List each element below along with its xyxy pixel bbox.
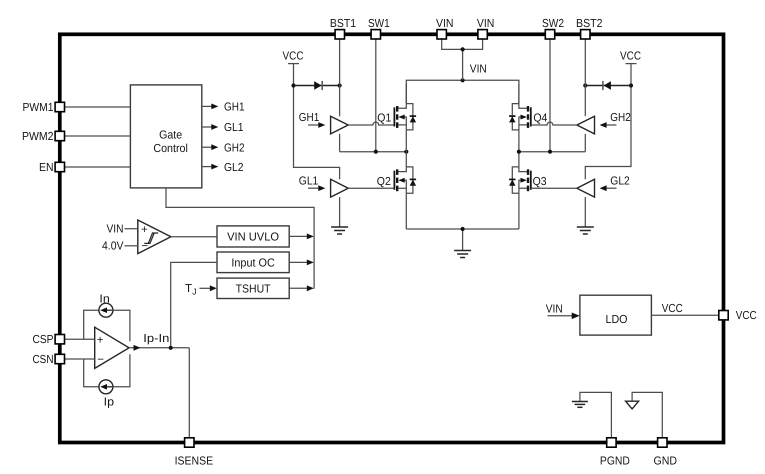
ground earth PGND — [572, 402, 588, 408]
node bridge ground center — [461, 227, 465, 231]
IC boundary box — [60, 34, 724, 442]
current sense amplifier U3 — [95, 327, 129, 368]
wire VCC down and over to GL2 driver supply — [585, 86, 631, 180]
svg-text:VIN: VIN — [436, 17, 454, 30]
label VIN into LDO with arrow — [546, 303, 580, 320]
node Q4 source rail — [517, 150, 521, 154]
wire Input OC to ISENSE node — [171, 262, 217, 347]
block Input OC — [217, 252, 289, 273]
wire GH2 driver lower rail — [584, 134, 586, 152]
svg-text:Q3: Q3 — [533, 175, 547, 188]
node VCC-diode junction right — [629, 83, 633, 87]
wire VCC down and over to GL1 driver supply — [294, 86, 340, 180]
svg-text:In: In — [99, 292, 109, 305]
current source In — [99, 303, 113, 317]
pin PWM1 — [23, 101, 65, 114]
wire Ip-In node down to ISENSE pin — [188, 348, 190, 438]
VIN top rail — [406, 80, 519, 103]
current source Ip loop (bottom) — [84, 354, 130, 387]
node VIN rail center — [461, 78, 465, 82]
pin PGND — [600, 438, 630, 468]
transistor Q4 — [509, 84, 531, 152]
wire EN to Gate Control — [65, 166, 131, 168]
svg-text:GH1: GH1 — [224, 101, 245, 114]
svg-text:VCC: VCC — [662, 302, 683, 315]
amp output arrow and Ip-In wire to ISENSE — [129, 347, 189, 349]
svg-text:LDO: LDO — [606, 313, 628, 326]
wire PWM1 to Gate Control — [65, 106, 131, 108]
svg-text:Input OC: Input OC — [231, 257, 275, 270]
svg-text:Q1: Q1 — [377, 112, 391, 125]
buffer GH2 driver — [577, 116, 595, 134]
current source In loop (top) — [84, 310, 130, 341]
arrow VIN UVLO to collector line — [289, 235, 307, 237]
svg-text:SW1: SW1 — [368, 17, 390, 30]
svg-text:GL1: GL1 — [299, 174, 319, 187]
svg-text:Q4: Q4 — [533, 112, 547, 125]
wire 4.0V to comparator - — [125, 245, 138, 247]
svg-text:GND: GND — [654, 454, 678, 467]
wire GL1 output to Q2 gate — [348, 187, 394, 189]
svg-text:PWM2: PWM2 — [22, 130, 54, 143]
wire BST1 pin to GH1 driver supply — [339, 39, 341, 116]
wire CSN to amp - — [65, 358, 95, 360]
svg-text:VIN: VIN — [470, 62, 487, 75]
svg-text:J: J — [192, 286, 196, 296]
wire GH1 output to Q1 gate with hop over SW1 — [348, 122, 394, 125]
svg-text:VIN: VIN — [107, 222, 124, 235]
pin VIN right — [477, 17, 495, 39]
block VIN UVLO — [217, 226, 289, 247]
wire PGND pin to earth ground — [580, 392, 612, 438]
diode D1 VCC to BST1 — [294, 81, 340, 90]
Gate Control output GL1 — [202, 121, 244, 134]
VCC T symbol right — [620, 50, 641, 86]
wire SW1 pin down to switch node rail — [375, 39, 377, 152]
buffer GL1 driver — [331, 179, 349, 197]
ground signal GND triangle — [626, 401, 639, 409]
svg-text:T: T — [185, 282, 192, 295]
svg-text:GL2: GL2 — [610, 174, 630, 187]
svg-text:Ip: Ip — [104, 395, 114, 408]
wire comparator output to VIN UVLO — [171, 236, 217, 238]
svg-text:EN: EN — [39, 161, 54, 174]
buffer GH1 driver — [331, 116, 349, 134]
wire GH2 output to Q4 gate with hop over SW2 — [531, 122, 577, 125]
svg-text:−: − — [141, 239, 148, 252]
svg-text:−: − — [97, 353, 104, 366]
pin SW1 — [368, 17, 390, 39]
pin ISENSE — [175, 438, 214, 468]
svg-text:+: + — [141, 223, 148, 236]
block LDO — [580, 295, 652, 335]
Gate Control output GL2 — [202, 161, 244, 174]
wire GL2 output to Q3 gate — [531, 187, 577, 189]
bottom bridge rail — [406, 229, 519, 250]
Gate Control output GH2 — [202, 141, 245, 154]
Gate Control block U1 — [130, 85, 201, 188]
node BST2-diode junction — [583, 83, 587, 87]
arrow TSHUT to collector line — [289, 287, 307, 289]
diode D2 VCC to BST2 — [585, 81, 631, 90]
pin VCC right — [719, 309, 757, 322]
svg-text:CSP: CSP — [33, 333, 54, 346]
pin PWM2 — [22, 130, 65, 143]
node SW1 on rail — [374, 150, 378, 154]
node Ip-In junction — [169, 346, 173, 350]
transistor Q3 — [509, 152, 531, 229]
comparator U2 VIN UVLO with hysteresis — [138, 220, 171, 254]
svg-text:VCC: VCC — [283, 50, 304, 63]
svg-text:GH2: GH2 — [224, 141, 245, 154]
wire VIN to comparator + — [125, 228, 138, 230]
svg-text:PGND: PGND — [600, 454, 630, 467]
node Q1 source rail — [404, 150, 408, 154]
svg-text:VCC: VCC — [736, 309, 757, 322]
node BST1-diode junction — [338, 83, 342, 87]
svg-text:Q2: Q2 — [377, 175, 391, 188]
arrow Input OC to collector line — [289, 261, 307, 263]
wire GL2 driver lower rail to ground — [584, 197, 586, 227]
node VIN pins join — [461, 47, 465, 51]
ground bridge center — [454, 251, 471, 258]
svg-text:VIN: VIN — [546, 303, 563, 316]
svg-text:+: + — [97, 333, 104, 346]
wire LDO output VCC to pin — [651, 314, 719, 316]
Gate Control output GH1 — [202, 101, 245, 114]
svg-text:Ip-In: Ip-In — [143, 332, 169, 345]
svg-text:GL2: GL2 — [224, 161, 244, 174]
wire VIN pins join — [442, 39, 483, 80]
label GH1 input arrow — [299, 111, 326, 128]
pin EN — [39, 161, 65, 174]
svg-text:BST2: BST2 — [576, 17, 603, 30]
svg-text:VCC: VCC — [620, 50, 641, 63]
wire SW1 rail — [340, 151, 407, 153]
wire GND pin to signal ground — [632, 392, 662, 438]
ground under GL1 — [331, 227, 348, 234]
pin CSP — [33, 333, 65, 346]
wire BST2 pin to GH2 driver supply — [584, 39, 586, 116]
svg-text:Control: Control — [153, 142, 188, 155]
svg-text:VIN UVLO: VIN UVLO — [227, 231, 279, 244]
wire SW2 rail — [519, 151, 585, 153]
label GH2 input arrow — [600, 111, 631, 128]
wire Gate Control bottom to fault collector line — [166, 188, 314, 289]
transistor Q1 — [394, 84, 416, 152]
buffer GL2 driver — [577, 179, 595, 197]
pin VIN left — [436, 17, 454, 39]
svg-text:BST1: BST1 — [330, 17, 356, 30]
svg-text:SW2: SW2 — [542, 17, 564, 30]
wire CSP to amp + — [65, 338, 95, 340]
block TSHUT — [217, 278, 289, 298]
label GL1 input arrow — [299, 174, 326, 191]
VCC T symbol left — [283, 50, 304, 86]
pin CSN — [33, 353, 65, 366]
pin BST1 — [330, 17, 356, 39]
node VCC-diode junction left — [291, 83, 295, 87]
svg-text:GH2: GH2 — [610, 111, 631, 124]
ground under GL2 — [577, 227, 594, 234]
svg-text:Gate: Gate — [159, 128, 182, 141]
svg-text:VIN: VIN — [477, 17, 495, 30]
svg-text:GL1: GL1 — [224, 121, 244, 134]
svg-text:GH1: GH1 — [299, 111, 320, 124]
wire SW2 pin down to switch node rail — [549, 39, 551, 152]
svg-text:PWM1: PWM1 — [23, 101, 54, 114]
wire PWM2 to Gate Control — [65, 135, 131, 137]
svg-text:TSHUT: TSHUT — [236, 283, 271, 296]
pin GND — [654, 438, 678, 468]
label GL2 input arrow — [600, 174, 630, 191]
svg-text:4.0V: 4.0V — [102, 240, 124, 253]
node SW2 on rail — [548, 150, 552, 154]
wire GL1 driver lower rail to ground — [339, 197, 341, 227]
wire GH1 driver lower rail — [339, 134, 341, 152]
svg-text:ISENSE: ISENSE — [175, 454, 214, 467]
pin SW2 — [542, 17, 564, 39]
svg-text:CSN: CSN — [33, 353, 54, 366]
pin BST2 — [576, 17, 603, 39]
transistor Q2 — [394, 152, 416, 229]
current source Ip — [99, 380, 113, 394]
